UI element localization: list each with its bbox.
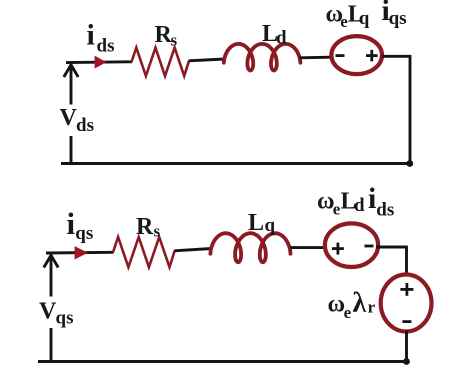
resistor R2 (Rs bottom) [113,237,175,267]
svg-text:d: d [276,28,287,49]
wire resistor to inductor bottom [174,249,211,251]
voltage source V3 (we lambda r) [381,275,432,332]
plus sign in V1 [366,54,378,57]
svg-text:i: i [67,206,76,241]
wire top-left horizontal bottom circuit [46,251,114,255]
svg-text:V: V [39,299,57,325]
wire right vertical lower segment bottom circuit [405,331,408,362]
svg-text:qs: qs [389,8,407,29]
svg-text:d: d [354,195,365,216]
wire left vertical upper segment bottom circuit [50,253,53,297]
wire top-left horizontal [66,60,132,64]
wire inductor to source [300,56,332,59]
svg-text:ω: ω [328,292,346,318]
voltage source V2 (we Ld ids) [325,223,378,267]
arrowhead Vds (up arrow) [64,65,78,77]
node arrow i_ds (current arrow) [95,56,107,69]
svg-text:s: s [171,31,178,50]
wire bottom horizontal bottom circuit [38,360,407,363]
svg-text:L: L [248,210,264,236]
svg-text:e: e [344,303,352,322]
svg-text:ds: ds [97,36,115,57]
junction dot bottom circuit bottom-right [403,358,410,365]
wire right vertical upper segment bottom circuit [405,247,408,276]
voltage source V1 (we Lq iqs) [331,36,382,74]
plus sign in V2 [332,247,344,250]
minus sign in V2 [365,245,374,248]
wire left vertical upper segment top circuit [70,63,73,105]
inductor L2 (Lq bottom) [210,233,290,262]
plus sign in V3 [400,288,413,291]
minus sign in V3 [402,320,411,323]
svg-text:λ: λ [353,288,367,319]
wire left vertical lower segment bottom circuit [50,328,53,363]
svg-text:q: q [359,8,370,29]
svg-text:ds: ds [376,200,394,221]
svg-text:r: r [368,297,376,316]
wire bottom horizontal top circuit [61,162,410,165]
wire source to right corner bottom [376,246,408,249]
wire inductor to source bottom [290,246,325,249]
wire source to right corner [382,55,411,58]
svg-text:s: s [154,222,161,241]
svg-text:i: i [368,182,376,215]
wire left vertical lower segment top circuit [70,136,73,165]
inductor L1 (Ld top) [224,44,301,71]
wire resistor to inductor [189,59,226,61]
svg-text:R: R [136,214,154,240]
junction dot top circuit bottom-right [406,160,413,167]
svg-text:V: V [60,105,78,131]
svg-text:qs: qs [75,223,93,244]
svg-text:q: q [265,215,276,236]
current arrow iqs [75,246,88,259]
resistor R1 (Rs top) [132,48,190,76]
svg-text:ds: ds [76,115,94,136]
minus sign in V1 [336,54,345,57]
svg-text:i: i [87,19,95,52]
arrowhead Vqs (up arrow) [44,255,58,267]
svg-text:qs: qs [56,308,74,329]
wire right vertical top circuit [409,56,412,163]
